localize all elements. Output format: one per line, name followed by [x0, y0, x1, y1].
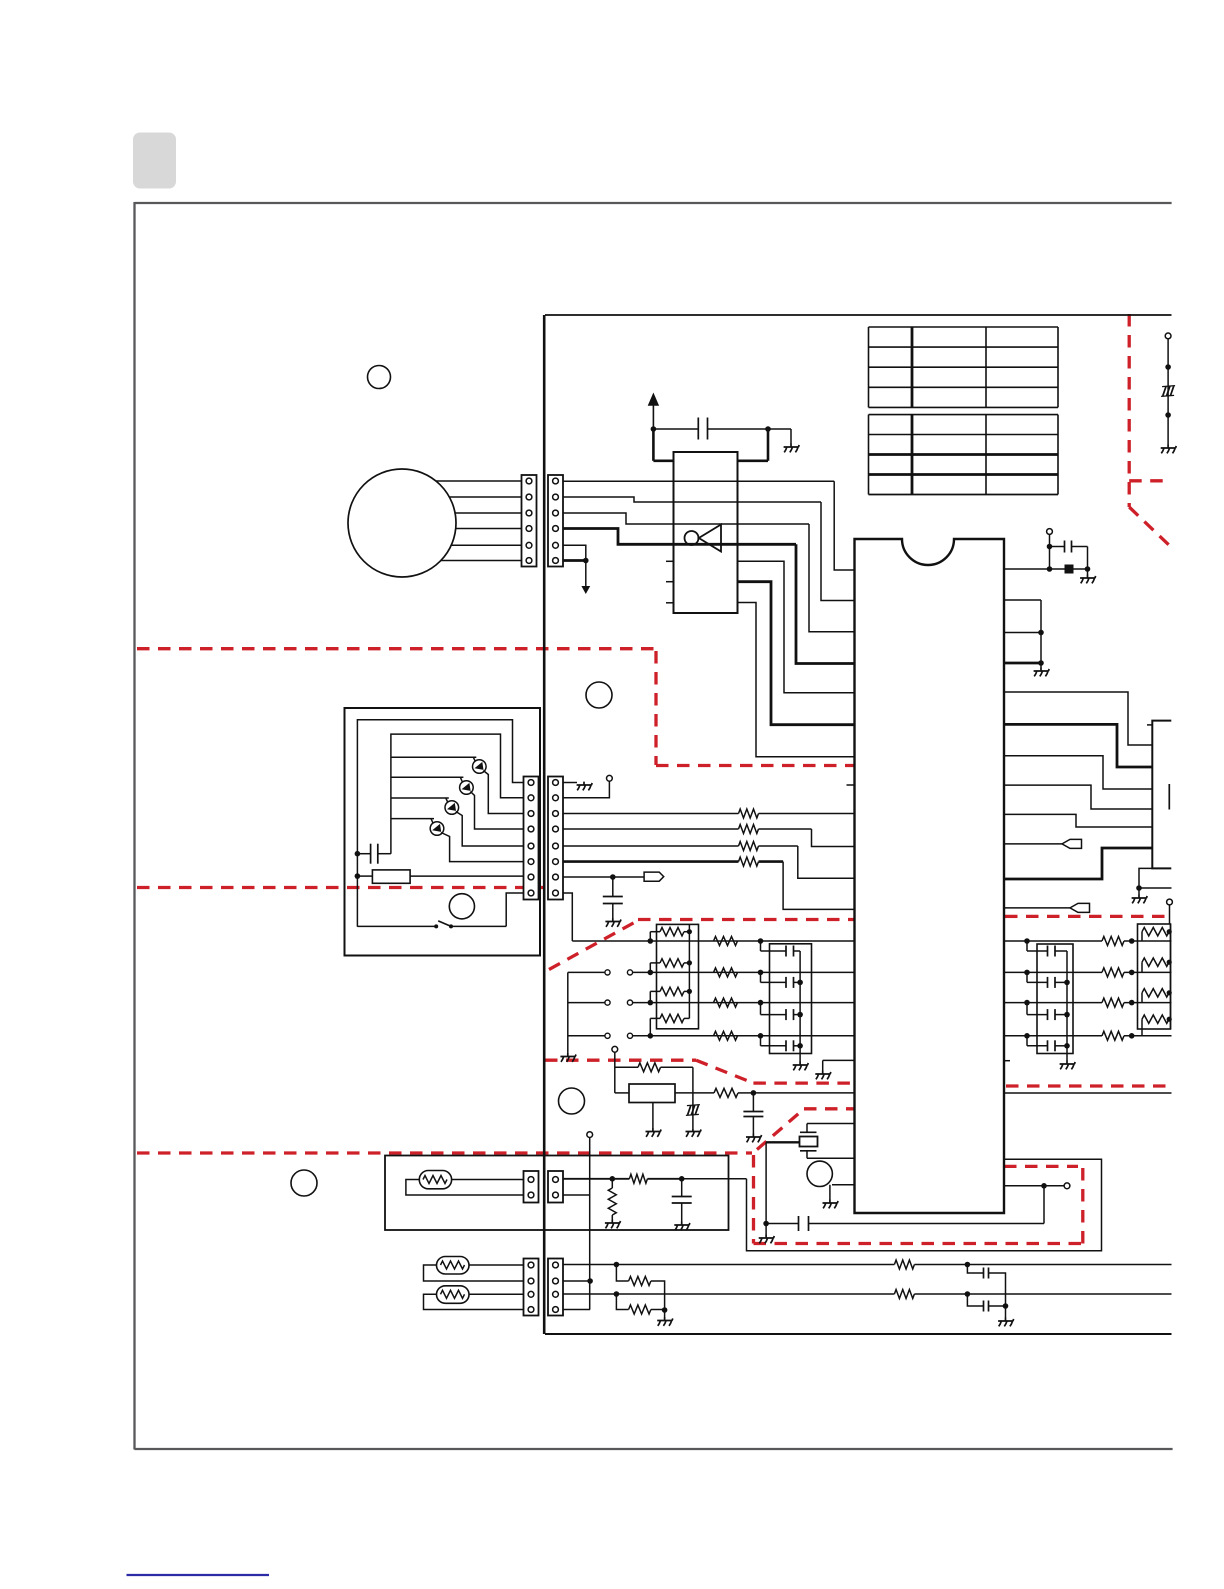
- ground: [823, 1200, 839, 1209]
- wire: [765, 1142, 767, 1223]
- wire U1 flag2: [1004, 907, 1070, 909]
- connector CN4b: [548, 1259, 563, 1316]
- wire CN4-1 row: [563, 1264, 1172, 1266]
- junction: [651, 426, 657, 432]
- resistor: [1102, 968, 1124, 977]
- table T2: [869, 415, 1059, 495]
- zone dash D: [545, 1059, 696, 1062]
- junction: [758, 938, 764, 944]
- wire loop2: [391, 734, 524, 854]
- wire CN1-5: [563, 545, 586, 560]
- junction: [1024, 970, 1030, 976]
- junction: [662, 1307, 668, 1313]
- connector CN3a: [524, 1171, 539, 1203]
- resistor: [894, 1290, 914, 1299]
- wire to ground: [768, 429, 791, 444]
- jumper rows: [568, 970, 855, 1039]
- wire U2 out2: [834, 481, 854, 570]
- wire U1-CN5 2: [1004, 724, 1152, 767]
- ground: [1080, 575, 1096, 584]
- board outline top: [545, 314, 1172, 316]
- wire led row: [391, 798, 449, 805]
- wire net888: [1139, 887, 1172, 889]
- terminal: [607, 775, 613, 781]
- wire: [1040, 663, 1042, 668]
- terminal: [612, 1046, 618, 1052]
- resistor: [1102, 998, 1124, 1007]
- wire row1: [572, 940, 854, 942]
- footer rule: [127, 1574, 270, 1576]
- junction: [1085, 566, 1091, 572]
- zone dash D right: [1006, 1084, 1171, 1087]
- junction: [610, 1176, 616, 1182]
- zone dash A3: [656, 764, 855, 767]
- capacitor C_b2: [967, 1294, 1005, 1312]
- capacitor C2: [1050, 541, 1088, 570]
- board outline bottom: [545, 1333, 1172, 1335]
- zone dash C diag: [549, 922, 636, 970]
- ground: [998, 1318, 1014, 1327]
- wire: [1087, 569, 1089, 575]
- resistor: [1102, 1031, 1124, 1040]
- zone dash E bottom: [754, 1242, 1084, 1245]
- zone dash F vert: [1128, 314, 1131, 507]
- wire U1 p3r: [1004, 632, 1041, 634]
- junction: [583, 558, 589, 564]
- wire U1 row r: [1004, 940, 1172, 942]
- wire: [1044, 1185, 1064, 1187]
- junction: [679, 1176, 685, 1182]
- wire LA1 a: [452, 1179, 524, 1181]
- zone dash B: [137, 886, 545, 889]
- capacitor C1: [653, 418, 768, 440]
- wire loop1: [357, 720, 523, 927]
- IC U1: [855, 539, 1005, 1213]
- zone dash E2: [804, 1107, 855, 1110]
- wire: [766, 1141, 799, 1143]
- resistor R_b2: [616, 1294, 664, 1314]
- resistor R_b1: [616, 1265, 664, 1311]
- wire CN1-2 to buffer: [563, 497, 821, 502]
- wire U1 vdd: [1004, 568, 1088, 570]
- junction: [614, 1262, 620, 1268]
- wire U1 loop: [747, 1159, 1102, 1251]
- wire CN2-6: [563, 862, 855, 910]
- junction: [1003, 1303, 1009, 1309]
- junction: [1165, 412, 1171, 418]
- zone dash F horiz: [1129, 479, 1171, 482]
- wire: [615, 1092, 693, 1094]
- junction: [1129, 1033, 1135, 1039]
- wire U1-CN5 1: [1004, 692, 1152, 745]
- ground: [746, 1134, 762, 1143]
- junction: [1129, 1000, 1135, 1006]
- wire CN1-3 to buffer: [563, 513, 809, 524]
- wire CN4-2: [563, 1280, 590, 1282]
- wire led row: [391, 777, 464, 784]
- wire U1 row r: [1004, 971, 1172, 973]
- wire CN2-3: [563, 813, 855, 815]
- capacitor C_q: [766, 1216, 808, 1231]
- connector CN5: [1147, 721, 1171, 869]
- wire: [765, 1224, 767, 1236]
- ground: [1132, 895, 1148, 904]
- junction: [1041, 1183, 1047, 1189]
- junction: [763, 1221, 769, 1227]
- wire X2 bot: [807, 1151, 855, 1159]
- wire bus gnd: [567, 972, 569, 1053]
- wire CN5 gnd: [1139, 868, 1152, 888]
- resonator X2: [800, 1132, 818, 1151]
- net flag: [1062, 839, 1082, 848]
- wire: [652, 1103, 654, 1129]
- resistor array RA2: [1138, 924, 1172, 1036]
- junction: [648, 938, 654, 944]
- connector CN2a: [524, 777, 539, 900]
- wire: [1167, 339, 1169, 445]
- wire led out: [470, 792, 523, 830]
- wire gnd rail: [738, 429, 769, 461]
- ground: [1060, 1061, 1076, 1070]
- terminal: [1064, 1183, 1070, 1189]
- zone dash D2: [753, 1081, 854, 1084]
- junction: [1129, 938, 1135, 944]
- board divider: [543, 315, 546, 1334]
- wire led row: [391, 819, 434, 826]
- wire LA3 b: [424, 1294, 524, 1309]
- wire pin8 drop: [563, 893, 572, 941]
- junction: [1165, 364, 1171, 370]
- wire U1 row r: [1004, 1035, 1172, 1037]
- capacitors CB2: [1027, 941, 1070, 1051]
- ground: [605, 918, 621, 927]
- ground: [560, 1053, 576, 1062]
- wire: [829, 1185, 831, 1200]
- terminal: [587, 1132, 593, 1138]
- junction: [1024, 1033, 1030, 1039]
- wire: [614, 1052, 616, 1093]
- capacitor bank CB1 box: [770, 944, 812, 1054]
- connector CN2b: [548, 777, 563, 900]
- wire: [799, 951, 801, 1062]
- zone dash E: [137, 1151, 752, 1154]
- junction: [1047, 544, 1053, 550]
- buffer stubs: [666, 561, 674, 603]
- wire CN3-1: [563, 1178, 747, 1180]
- junction: [614, 1291, 620, 1297]
- wire U1 gnd pin: [823, 1060, 855, 1071]
- wire U1-CN5 3: [1004, 756, 1152, 789]
- junction: [765, 426, 771, 432]
- junction: [1038, 630, 1044, 636]
- wire X2 top: [807, 1124, 855, 1133]
- junction: [1136, 885, 1142, 891]
- wire CN2-7: [563, 876, 644, 878]
- wire led out: [483, 771, 523, 814]
- wire: [1066, 951, 1068, 1061]
- zone dash D diag: [696, 1060, 753, 1083]
- ferrite bead FB1: [1065, 565, 1074, 574]
- capacitors CB1: [761, 941, 803, 1051]
- zone dash E right vert: [1081, 1168, 1084, 1244]
- switch SW1: [357, 893, 523, 928]
- capacitor C3: [603, 877, 623, 919]
- outer frame: [135, 202, 1173, 1450]
- connector CN1a: [522, 475, 537, 567]
- wire: [1138, 888, 1140, 895]
- transistor Q1: [807, 1161, 832, 1186]
- power arrow: [648, 393, 659, 430]
- resistor: [739, 857, 759, 866]
- resistor: [739, 809, 759, 818]
- wire LA2 a: [469, 1264, 524, 1266]
- wire U1-CN5 5: [1004, 814, 1152, 827]
- ground: [815, 1071, 831, 1080]
- wire CN1-1 to buffer: [563, 480, 834, 482]
- capacitor C_b1: [967, 1265, 1005, 1307]
- ground: [1161, 445, 1177, 454]
- ground: [759, 1235, 775, 1244]
- ground: [686, 1128, 702, 1137]
- wire U1-CN5 6: [1004, 848, 1152, 879]
- connector CN3b: [548, 1171, 563, 1203]
- wire CN2-1: [563, 782, 577, 784]
- junction: [1024, 938, 1030, 944]
- zone dash E vert: [752, 1155, 755, 1244]
- wire LA2 b: [424, 1265, 524, 1281]
- wire CN2-5: [563, 846, 855, 878]
- wire U2 out5: [796, 544, 855, 663]
- wire motor leads: [402, 481, 522, 561]
- junction: [758, 970, 764, 976]
- capacitor C_t: [672, 1179, 692, 1222]
- resistor R_t1: [612, 1174, 647, 1183]
- resistor row: [714, 937, 738, 946]
- wire: [1169, 905, 1171, 924]
- wire Q1 out: [832, 1184, 855, 1186]
- wire U1 flag1: [1004, 843, 1062, 845]
- wire LA3 a: [469, 1293, 524, 1295]
- wire CN3-2: [563, 1194, 590, 1196]
- wire: [1049, 534, 1051, 569]
- wire: [693, 1092, 754, 1094]
- crystal X1: [629, 1084, 675, 1103]
- wire: [664, 1310, 666, 1318]
- resistor row: [714, 998, 738, 1007]
- wire U2 out4: [809, 524, 855, 632]
- zone dash E diag: [757, 1109, 804, 1150]
- wire U1 row r: [1004, 1002, 1172, 1004]
- wire long vert: [589, 1138, 591, 1310]
- page corner tab: [133, 133, 176, 189]
- lamp box: [385, 1156, 729, 1231]
- junction: [1047, 566, 1053, 572]
- wire: [692, 1093, 694, 1128]
- wire to down arrow: [585, 561, 587, 587]
- resistor R_t2: [608, 1179, 616, 1220]
- wire U2 out7: [738, 582, 855, 725]
- label circle C: [291, 1170, 317, 1196]
- wire U2 out6: [738, 561, 855, 693]
- wire led out: [456, 812, 524, 847]
- terminal: [1047, 529, 1053, 535]
- zone dash C: [638, 918, 855, 921]
- zone dash E top right: [1004, 1165, 1078, 1168]
- photo-interrupter LED: [430, 822, 444, 836]
- wire: [1170, 924, 1172, 1029]
- wire U1-CN5 4: [1004, 785, 1152, 809]
- photo-interrupter LED: [473, 760, 487, 774]
- wire: [1005, 1306, 1007, 1318]
- wire CN1-6: [563, 559, 586, 562]
- resistor R_x: [638, 1063, 661, 1072]
- wire: [809, 1186, 1045, 1224]
- zone dash A2: [654, 651, 657, 765]
- junction: [965, 1262, 971, 1268]
- motor M1: [348, 469, 456, 577]
- down arrow: [581, 586, 590, 594]
- sensor box: [345, 708, 541, 956]
- wire U1 p2r: [1004, 600, 1041, 663]
- zone dash A: [137, 647, 656, 650]
- label circle B: [586, 682, 612, 708]
- resistor: [1102, 937, 1124, 946]
- junction: [1129, 970, 1135, 976]
- net flag: [1070, 903, 1090, 912]
- wire: [688, 924, 690, 1018]
- wire U1 p1092: [753, 1092, 854, 1094]
- wire CN2-2: [563, 781, 609, 798]
- wire vcc rail: [653, 429, 673, 461]
- wire CN4-3 row: [563, 1293, 1172, 1295]
- junction: [1024, 1000, 1030, 1006]
- ground: [784, 444, 800, 453]
- lamp LA1: [419, 1171, 451, 1189]
- IC stub pin: [847, 784, 855, 786]
- junction: [587, 1278, 593, 1284]
- photo-interrupter LED: [445, 801, 459, 815]
- resistor R_osc: [714, 1088, 738, 1097]
- table T1: [869, 327, 1059, 407]
- terminal: [1167, 899, 1173, 905]
- inductor III: [686, 1105, 700, 1116]
- wire led row: [391, 757, 476, 763]
- wire U1 p1185: [1004, 1185, 1044, 1187]
- ground: [605, 1220, 621, 1229]
- ground: [674, 1222, 690, 1231]
- wire CN2-4: [563, 829, 855, 847]
- capacitor C_osc: [743, 1093, 763, 1134]
- ground: [657, 1317, 673, 1326]
- inductor III: [1161, 386, 1175, 397]
- junction: [758, 1000, 764, 1006]
- resistor: [894, 1260, 914, 1269]
- wire U1 p4r: [1004, 662, 1041, 665]
- wire U2 out8: [738, 603, 855, 757]
- resistor row: [714, 968, 738, 977]
- junction: [751, 1090, 757, 1096]
- ground: [646, 1128, 662, 1137]
- buffer U2: [674, 452, 738, 613]
- wire: [615, 1067, 693, 1093]
- resistor R_s: [355, 870, 524, 883]
- ground: [1034, 668, 1050, 677]
- junction: [610, 874, 616, 880]
- wire CN4-4: [563, 1309, 590, 1311]
- connector CN4a: [524, 1259, 539, 1316]
- net flag: [644, 872, 664, 881]
- zone dash C right: [1005, 915, 1172, 918]
- connector CN1b: [548, 475, 563, 567]
- wire LA1 b: [406, 1180, 524, 1196]
- junction: [1038, 660, 1044, 666]
- wire U1 row1093: [1004, 1092, 1172, 1094]
- resistor row: [714, 1031, 738, 1040]
- capacitor bank CB2 box: [1037, 944, 1073, 1054]
- zone dash F diag: [1129, 507, 1170, 546]
- IC stub pin right: [1004, 1060, 1010, 1062]
- label circle D: [559, 1088, 585, 1114]
- resistor: [739, 842, 759, 851]
- capacitor C_s: [355, 844, 391, 864]
- resistor: [739, 825, 759, 834]
- lamp LA2: [437, 1257, 470, 1275]
- lamp LA3: [437, 1286, 470, 1304]
- junction: [965, 1291, 971, 1297]
- wire U2 out3: [821, 502, 855, 601]
- inverter symbol: [685, 525, 722, 552]
- wire led out: [441, 833, 524, 862]
- ground: [577, 782, 593, 791]
- ground: [793, 1062, 809, 1071]
- label circle E: [449, 894, 474, 919]
- wire CN1-4 to buffer: [563, 529, 796, 545]
- resistor array RA1: [650, 924, 698, 1035]
- terminal: [1165, 333, 1171, 339]
- label circle A: [368, 366, 391, 389]
- photo-interrupter LED: [460, 781, 474, 795]
- junction: [758, 1033, 764, 1039]
